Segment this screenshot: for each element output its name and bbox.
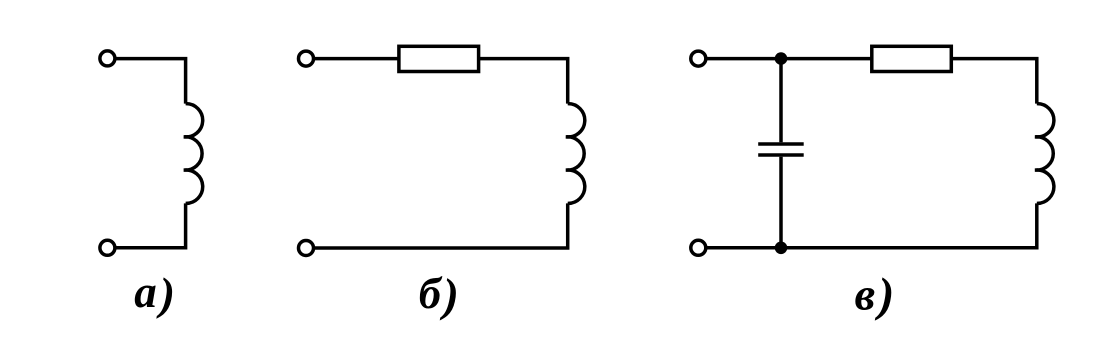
terminal (circuit a, top) — [100, 51, 115, 66]
resistor R (circuit b) — [399, 46, 479, 71]
wire: inductor bottom to node B — [781, 203, 1037, 247]
wire: inductor bottom to b bottom terminal — [314, 203, 568, 248]
svg-text:б: б — [419, 268, 443, 318]
wire: resistor to inductor top (circuit v) — [951, 59, 1037, 104]
terminal (circuit a, bottom) — [100, 240, 115, 255]
terminal (circuit b, top) — [299, 51, 314, 66]
wire: node A to resistor — [781, 57, 872, 61]
wire: a top terminal to inductor top — [116, 59, 186, 104]
caption a) — [134, 267, 175, 319]
terminal (circuit b, bottom) — [299, 241, 314, 256]
terminal (circuit v, top) — [691, 51, 706, 66]
capacitor C top plate — [758, 142, 804, 146]
svg-text:а: а — [134, 267, 157, 317]
inductor L (circuit b) — [566, 104, 585, 204]
inductor L (circuit a) — [184, 104, 203, 204]
caption v) — [855, 268, 895, 321]
wire: v top terminal to node A — [706, 57, 781, 61]
wire: node B to v bottom terminal — [706, 246, 781, 250]
wire: node A down to capacitor — [779, 59, 783, 143]
wire: inductor bottom to a bottom terminal — [116, 203, 186, 247]
node A (top junction) — [775, 52, 788, 65]
svg-text:в: в — [855, 268, 876, 319]
wire: capacitor down to node B — [779, 157, 783, 248]
inductor L (circuit v) — [1035, 104, 1054, 204]
wire: resistor to inductor top (circuit b) — [479, 59, 568, 104]
resistor R (circuit v) — [872, 46, 952, 71]
terminal (circuit v, bottom) — [691, 240, 706, 255]
caption b) — [419, 268, 459, 322]
wire: b top terminal to resistor — [314, 57, 399, 61]
capacitor C bottom plate — [758, 153, 804, 157]
node B (bottom junction) — [775, 242, 788, 255]
